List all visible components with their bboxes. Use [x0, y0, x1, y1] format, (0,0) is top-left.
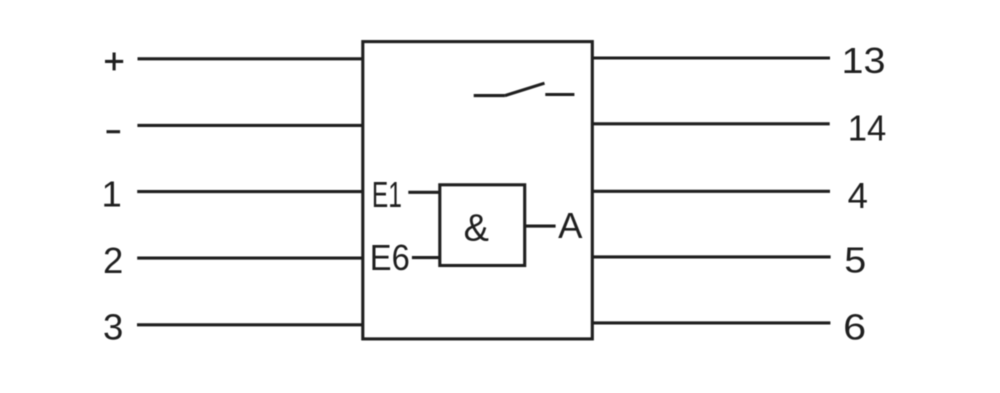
wire terminal 14 — [592, 122, 829, 125]
svg-text:2: 2 — [103, 240, 123, 281]
wire terminal 2 — [137, 257, 363, 260]
svg-text:1: 1 — [101, 174, 121, 215]
wire terminal 13 — [592, 56, 830, 59]
wire input E6 — [412, 256, 440, 259]
svg-text:14: 14 — [848, 108, 887, 149]
svg-text:E1: E1 — [372, 174, 402, 215]
switch S1 blade — [505, 83, 545, 95]
svg-text:A: A — [558, 205, 583, 246]
wire terminal 1 — [137, 190, 363, 193]
svg-text:3: 3 — [103, 307, 123, 348]
minus symbol terminal — [107, 130, 121, 133]
AND gate U1 box — [440, 185, 525, 266]
wire terminal - — [137, 124, 362, 127]
wire terminal 3 — [137, 323, 363, 326]
wire terminal 5 — [592, 255, 830, 258]
wire output A — [525, 225, 556, 228]
switch S1 left lead — [474, 94, 505, 97]
svg-text:6: 6 — [843, 307, 866, 348]
svg-text:&: & — [464, 208, 489, 250]
wire input E1 — [408, 191, 440, 194]
svg-text:13: 13 — [842, 40, 886, 81]
wire terminal 4 — [592, 190, 830, 193]
svg-text:4: 4 — [848, 175, 868, 216]
switch S1 right lead — [545, 93, 574, 96]
svg-text:5: 5 — [844, 239, 866, 280]
module outline rectangle — [363, 42, 593, 339]
plus symbol terminal — [105, 53, 123, 71]
wire terminal 6 — [592, 321, 830, 324]
svg-text:E6: E6 — [370, 237, 410, 278]
wire terminal + — [138, 57, 363, 60]
